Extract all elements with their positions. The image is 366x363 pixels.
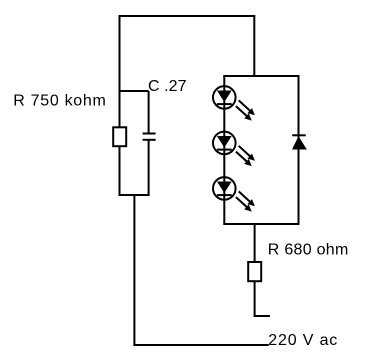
svg-text:C .27: C .27: [148, 78, 187, 95]
wire: top rail from left branch to right branch: [120, 16, 255, 91]
wire: LED/diode block top rail: [223, 75, 299, 77]
diode D4: [292, 135, 307, 149]
wire: capacitor C1 top lead: [148, 91, 150, 134]
label C .27: [148, 78, 187, 95]
label R 680 ohm: [268, 242, 349, 259]
wire: diode branch vertical: [298, 76, 300, 224]
LED D3: [213, 177, 255, 212]
wire: capacitor C1 bottom lead: [148, 140, 150, 195]
wire: RC section top rail: [119, 90, 149, 92]
resistor R1 750 kohm: [113, 127, 126, 146]
svg-text:R 680 ohm: R 680 ohm: [268, 242, 349, 259]
wire: resistor R1 bottom lead: [119, 146, 121, 195]
wire: bottom wire to AC source terminal: [133, 344, 268, 346]
wire: resistor R1 top lead: [119, 91, 121, 128]
wire: LED/diode block bottom rail: [223, 223, 299, 225]
label 220 V ac: [268, 332, 337, 349]
wire: left output down from RC section: [133, 195, 135, 345]
label R 750 kohm: [13, 93, 106, 110]
capacitor C1 .27: [143, 134, 156, 140]
LED D2: [213, 132, 255, 167]
wire: RC section bottom rail: [119, 194, 150, 196]
wire: LED branch vertical: [223, 76, 225, 224]
svg-text:220 V ac: 220 V ac: [268, 332, 337, 349]
svg-text:R 750 kohm: R 750 kohm: [13, 93, 106, 110]
LED D1: [213, 86, 255, 121]
wire: resistor R2 top lead: [254, 224, 256, 262]
wire: resistor R2 bottom lead to AC terminal: [255, 281, 270, 316]
resistor R2 680 ohm: [248, 262, 261, 281]
